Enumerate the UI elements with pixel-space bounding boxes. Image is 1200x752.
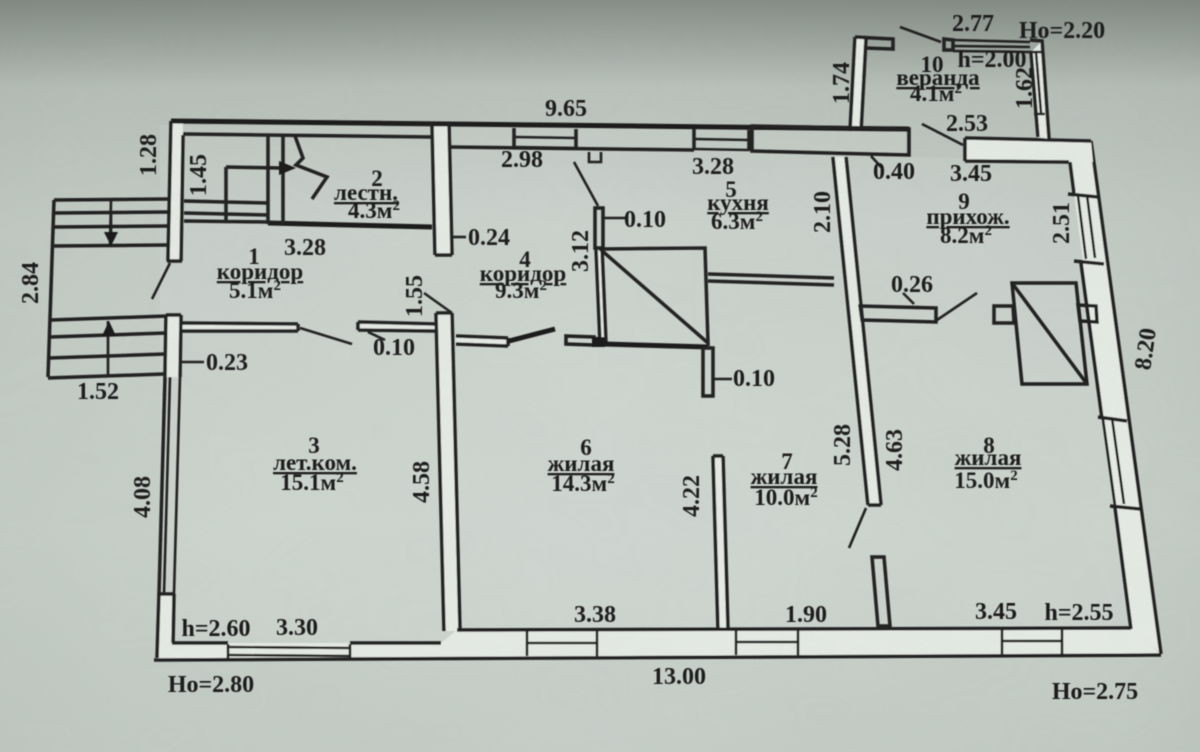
room2 inner top line xyxy=(183,134,432,137)
hall cupboard box xyxy=(1012,283,1087,384)
window left wall outer xyxy=(159,377,165,594)
wall right inner seg1 xyxy=(1070,162,1074,193)
door leaf corridor1 xyxy=(300,328,352,344)
window bottom room6 midline xyxy=(527,642,597,645)
porch upper step lines xyxy=(51,199,170,246)
window left wall inner xyxy=(174,377,180,594)
wall fill room6band xyxy=(456,336,508,346)
window bottom room6 cap right xyxy=(596,629,599,656)
wall left lower block inner xyxy=(173,594,174,643)
wall stub rooms7-8 outline xyxy=(872,557,890,626)
window top wall 2 lines xyxy=(694,139,749,150)
window bottom room8 cap right xyxy=(1061,628,1064,654)
partition kitchen corridor4 upper box xyxy=(595,208,603,248)
window left wall midline xyxy=(164,377,170,594)
porch up arrow head xyxy=(102,321,116,336)
door swing entrance xyxy=(152,263,170,299)
tick 0.10 kitchen xyxy=(604,217,626,220)
wall bottom inner left xyxy=(172,641,441,645)
hall cupboard right stub xyxy=(1078,305,1097,322)
wall fill corridor1a xyxy=(181,323,298,331)
door hook corridor1 xyxy=(368,332,385,340)
wall fill left block xyxy=(157,594,174,658)
window right wall2 midline xyxy=(1112,418,1124,504)
veranda right wall fill xyxy=(1031,41,1049,139)
window right wall1 midline xyxy=(1087,195,1095,258)
chimney wall right line xyxy=(846,157,881,505)
veranda right window caps xyxy=(1031,52,1045,114)
wall fill room2wall xyxy=(432,122,452,255)
wall right inner seg2 xyxy=(1081,263,1102,418)
wall fill chimney xyxy=(833,157,881,505)
window bottom room8 midline xyxy=(1002,640,1062,643)
porch lower divider xyxy=(107,321,110,377)
kitchen bottom wall xyxy=(708,274,834,285)
window right wall1 cap top xyxy=(1068,194,1098,197)
wall top outer xyxy=(171,121,909,129)
window bottom room3 cap right xyxy=(349,644,352,660)
partition rooms6-7 right line xyxy=(723,456,728,630)
stair arrow head xyxy=(279,161,296,175)
room6 top wall band left xyxy=(456,336,508,346)
window bottom room3 lines xyxy=(228,647,350,656)
wall left upper band outer xyxy=(168,121,171,261)
partition rooms3-6 top cap xyxy=(436,311,452,315)
wall bottom inner right xyxy=(457,628,1131,630)
veranda top window lines xyxy=(953,40,1031,52)
wall left mid band inner xyxy=(180,315,181,377)
room4 top line xyxy=(449,147,694,150)
chimney wall bottom cap xyxy=(868,503,881,507)
wall fill partition67 xyxy=(713,456,728,630)
wall fill kitchen partition xyxy=(596,248,606,343)
window bottom room7 midline xyxy=(736,641,798,644)
partition rooms3-6 left line xyxy=(436,313,444,631)
window top wall 1 caps xyxy=(514,128,576,148)
partition rooms6-7 top cap xyxy=(713,454,723,458)
wall fill veranda left xyxy=(850,37,866,131)
wall fill right xyxy=(1070,141,1161,654)
stair zigzag break xyxy=(295,136,327,199)
veranda corner right xyxy=(1030,40,1049,139)
stair tread line a xyxy=(266,136,270,224)
wall left mid cap xyxy=(166,313,181,317)
porch upper left edge xyxy=(48,200,54,377)
door leaf room6 xyxy=(509,329,555,341)
window right wall2 inner xyxy=(1103,419,1115,505)
wall left lower block cap xyxy=(159,592,174,596)
chimney wall left line xyxy=(833,157,868,505)
room6 top wall right thick xyxy=(604,344,708,347)
veranda right wall inner xyxy=(1031,52,1038,137)
window bottom room7 cap right xyxy=(797,628,800,655)
porch down arrow shaft xyxy=(110,213,113,236)
stair arrow shaft xyxy=(232,167,282,168)
veranda left wall top stub xyxy=(855,37,893,49)
wall fill left upper xyxy=(168,121,183,261)
stair inner lines xyxy=(184,167,281,223)
hall door swing xyxy=(937,293,977,320)
porch down arrow head xyxy=(104,232,118,246)
hall top wall band outline xyxy=(965,138,1093,162)
veranda top window cap left xyxy=(944,39,953,50)
window bottom room8 cap left xyxy=(1001,628,1004,655)
window right wall2 cap bottom xyxy=(1110,506,1140,509)
veranda right window stripe xyxy=(1036,52,1041,113)
wall right outer xyxy=(1091,141,1161,654)
tick 0.23 xyxy=(182,361,204,364)
veranda left wall inner xyxy=(861,38,866,131)
corridor1 bottom wall right part xyxy=(358,322,435,331)
wall fill bottom xyxy=(154,628,1161,660)
room2 bottom thick line xyxy=(268,223,432,227)
wall left upper band inner xyxy=(181,135,183,261)
stair tread line b xyxy=(281,136,285,224)
tick 0.40 xyxy=(871,156,881,167)
room6 top wall box xyxy=(566,336,594,345)
tick 0.10 room6 xyxy=(714,378,732,381)
hinge notch top wall xyxy=(589,152,601,162)
tick 0.24 xyxy=(451,236,466,239)
window top wall 2 caps xyxy=(694,129,749,151)
door swing room2 xyxy=(424,293,452,313)
window bottom room6 cap left xyxy=(526,630,529,656)
wall fill partition36 xyxy=(436,313,460,631)
partition rooms3-6 right line xyxy=(452,313,460,631)
porch lower step lines xyxy=(48,316,167,378)
door swing rooms7-8 xyxy=(849,508,866,548)
hall cupboard diagonal xyxy=(1012,283,1087,384)
window right wall1 inner xyxy=(1078,196,1086,259)
window bottom room7 cap left xyxy=(735,629,738,655)
veranda left wall outer xyxy=(850,37,855,131)
room2 right wall outline xyxy=(432,122,452,255)
hall shelf 0.26 box xyxy=(860,306,936,322)
window bottom room3 cap left xyxy=(227,644,230,660)
wall right inner seg3 xyxy=(1115,507,1131,629)
room6 top wall junction xyxy=(592,337,605,347)
interior paper lighten xyxy=(160,125,1155,655)
door swing corridor4 top xyxy=(574,162,598,206)
window top wall 1 lines xyxy=(514,137,576,148)
window right wall1 cap bottom xyxy=(1074,261,1104,264)
kitchen cupboard triangle xyxy=(600,248,708,343)
wall left upper band cap xyxy=(167,259,182,263)
partition kitchen corridor4 lower xyxy=(596,248,606,343)
partition rooms6-7 left line xyxy=(713,456,718,630)
tick 0.26 xyxy=(903,293,914,304)
wall left mid band outer xyxy=(165,315,166,377)
wall left lower block outer xyxy=(157,594,159,658)
veranda exit swing xyxy=(922,124,963,145)
window right wall2 cap top xyxy=(1098,417,1127,421)
top thick wall band kitchen outline xyxy=(752,126,909,155)
corridor1 bottom wall left part xyxy=(181,323,298,331)
wall fill corridor1b xyxy=(358,322,435,331)
porch upper divider xyxy=(110,200,111,246)
partition stub 0.10 room6 xyxy=(703,348,713,396)
hall cupboard left stub xyxy=(994,306,1014,323)
wall bottom outer xyxy=(154,655,1161,660)
wall fill left mid xyxy=(165,315,181,377)
veranda door swing xyxy=(900,27,941,42)
